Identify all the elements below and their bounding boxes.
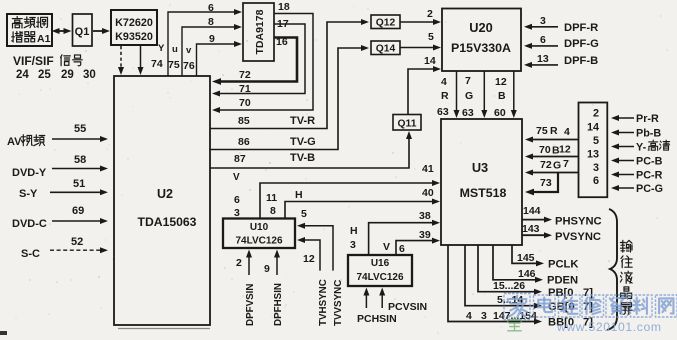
svg-text:30: 30 (83, 69, 96, 81)
wire U10 pin11 H to U3 pin41 (260, 163, 440, 219)
label pins 74 75 76 (151, 58, 195, 72)
svg-text:PB[0: PB[0 (548, 287, 574, 299)
svg-text:7]: 7] (583, 301, 593, 313)
output U3 pin143 PVSYNC (522, 223, 601, 243)
svg-text:75: 75 (168, 59, 180, 71)
svg-text:U16: U16 (371, 258, 390, 269)
ic TDA9178 (243, 3, 274, 61)
input Pb-B to connector pin14 (611, 128, 661, 140)
svg-text:74: 74 (151, 58, 163, 70)
svg-text:TVHSYNC: TVHSYNC (318, 279, 329, 326)
svg-text:145: 145 (517, 252, 535, 264)
input Y-HD (Y-高清) to connector pin5 (611, 140, 670, 154)
svg-text:86: 86 (238, 136, 250, 148)
svg-text:H: H (350, 225, 358, 237)
svg-text:63: 63 (462, 107, 474, 119)
wire TDA9178 pin18 to U2 pin70 (212, 14, 313, 114)
tuner box A1 (高频调谐器A1) (7, 14, 52, 46)
wire U: U2 pin75 to TDA9178 pin8 (182, 24, 242, 76)
svg-text:9: 9 (264, 263, 270, 275)
svg-text:146: 146 (518, 268, 536, 280)
wire Q14 to U20 pin5 (400, 31, 441, 51)
wire U20 pin7 G out to U3 pin63 (462, 71, 487, 119)
input DVD-Y pin 58 (12, 154, 108, 179)
svg-text:5: 5 (593, 135, 599, 147)
wire connector pin5 to U3 pin75 (75 R 4) (525, 125, 579, 143)
svg-text:6: 6 (234, 194, 240, 206)
brace to LCD panel (607, 209, 617, 330)
svg-text:2: 2 (427, 8, 433, 20)
svg-text:VIF/SIF: VIF/SIF (13, 54, 54, 68)
watermark green char (508, 317, 521, 331)
svg-text:73: 73 (540, 177, 552, 189)
input Pr-R to connector pin2 (611, 113, 659, 125)
svg-text:85: 85 (238, 115, 250, 127)
svg-text:4: 4 (441, 76, 447, 88)
wire TVHSYNC to U10 pin12 (297, 237, 320, 271)
svg-text:2: 2 (593, 108, 599, 120)
svg-text:Q11: Q11 (398, 119, 417, 130)
svg-text:4: 4 (466, 310, 472, 322)
svg-text:3: 3 (234, 207, 240, 219)
svg-text:63: 63 (437, 106, 449, 118)
svg-text:G: G (553, 160, 561, 172)
label VIF/SIF signal (VIF/SIF信号) (13, 54, 83, 68)
wire TDA9178 pin17 to U2 pin71 (212, 24, 305, 97)
svg-text:v: v (186, 45, 192, 56)
transistor Q11 (393, 115, 421, 131)
svg-text:74LVC126: 74LVC126 (356, 272, 404, 283)
wire U20 pin4 R out to U3 pin63 (437, 71, 460, 118)
svg-text:PC-R: PC-R (636, 170, 663, 182)
svg-text:TV-B: TV-B (290, 152, 315, 164)
svg-text:H: H (295, 189, 303, 201)
watermark 家电维修资料网 (504, 294, 677, 320)
input DPFHSIN to U10 pin9 (264, 250, 284, 327)
label U2 pins 6 3 (234, 194, 240, 219)
svg-text:3: 3 (540, 15, 546, 27)
svg-text:51: 51 (73, 178, 85, 190)
input PC-R to connector pin3 (611, 170, 663, 182)
svg-text:14: 14 (424, 55, 436, 67)
transistor Q1 (73, 14, 93, 46)
input PCHSIN to U16 (357, 288, 397, 326)
input DPF-R to U20 pin3 (524, 15, 598, 34)
svg-text:40: 40 (422, 187, 434, 199)
input S-C pin 52 (dashed) (21, 236, 108, 260)
svg-text:72: 72 (540, 159, 552, 171)
svg-text:87: 87 (234, 153, 246, 165)
svg-text:PVSYNC: PVSYNC (555, 231, 601, 243)
svg-text:6: 6 (593, 175, 599, 187)
svg-text:DVD-Y: DVD-Y (12, 167, 47, 179)
svg-text:15...26: 15...26 (493, 280, 525, 292)
svg-text:S-Y: S-Y (19, 188, 38, 200)
svg-text:Y-: Y- (636, 142, 647, 154)
svg-text:V: V (233, 172, 240, 183)
svg-text:13: 13 (587, 148, 599, 160)
svg-text:75: 75 (536, 125, 548, 137)
svg-text:PC-G: PC-G (636, 183, 663, 195)
svg-text:9: 9 (209, 33, 215, 45)
svg-text:11: 11 (266, 192, 277, 204)
input DPF-B to U20 pin13 (524, 53, 598, 68)
input PC-B to connector pin13 (611, 156, 663, 168)
svg-text:PDEN: PDEN (547, 275, 578, 287)
label TVVSYNC (333, 280, 344, 326)
svg-text:12: 12 (559, 144, 571, 156)
svg-text:8: 8 (270, 205, 276, 217)
svg-text:K93520: K93520 (115, 31, 153, 43)
svg-text:8: 8 (208, 16, 214, 28)
svg-text:39: 39 (419, 229, 431, 241)
svg-text:12: 12 (495, 76, 507, 88)
svg-text:U2: U2 (157, 187, 173, 201)
svg-text:PC-B: PC-B (636, 156, 663, 168)
svg-text:Q12: Q12 (376, 18, 396, 29)
input PCVSIN to U16 (379, 288, 427, 314)
label Y U V (158, 43, 192, 56)
input DPF-G to U20 pin6 (524, 34, 599, 50)
wire V: U2 pin76 to TDA9178 pin9 (197, 41, 243, 76)
wire Q11 to U20 pin14 (408, 55, 441, 115)
wire Q1 to IF box (93, 28, 110, 34)
IF filter box K72620/K93520 (111, 10, 157, 45)
svg-text:58: 58 (74, 154, 86, 166)
label to LCD panel (输往液晶屏) (620, 240, 632, 314)
output U3 bus GB[0..7] pins 5...14 (465, 245, 593, 313)
svg-text:14: 14 (587, 122, 599, 134)
input DVD-C pin 69 (12, 205, 108, 230)
wire K box to U2 pin (dashed) (118, 46, 124, 75)
svg-text:TDA9178: TDA9178 (254, 9, 266, 54)
wire K box to U2 (138, 46, 144, 75)
ic U16 74LVC126 (348, 255, 412, 286)
svg-text:DPF-G: DPF-G (564, 38, 599, 50)
svg-text:25: 25 (38, 69, 51, 81)
svg-text:P15V330A: P15V330A (451, 41, 511, 55)
svg-text:41: 41 (422, 163, 434, 175)
svg-text:2: 2 (236, 257, 242, 269)
svg-text:PCHSIN: PCHSIN (357, 313, 397, 325)
svg-text:www.520101.com: www.520101.com (556, 320, 662, 334)
connector CN input (video input port) (579, 103, 608, 198)
svg-text:74LVC126: 74LVC126 (235, 236, 283, 247)
svg-text:3: 3 (481, 310, 487, 322)
ic U3 MST518 (441, 119, 522, 245)
svg-text:R: R (441, 90, 449, 102)
svg-text:U10: U10 (250, 222, 269, 233)
svg-text:Q14: Q14 (376, 44, 396, 55)
svg-text:A1: A1 (37, 33, 51, 45)
svg-text:Q1: Q1 (75, 26, 90, 38)
wire U10 pin8 to U3 pin40 (270, 187, 440, 220)
transistor Q14 (371, 41, 400, 55)
wire U3 pin73 branch (525, 173, 558, 196)
svg-text:PCVSIN: PCVSIN (388, 301, 427, 313)
svg-text:60: 60 (494, 107, 506, 119)
svg-text:18: 18 (278, 1, 290, 13)
svg-text:6: 6 (399, 243, 405, 255)
svg-text:U3: U3 (472, 160, 488, 175)
svg-text:S-C: S-C (21, 248, 40, 260)
svg-text:DVD-C: DVD-C (12, 218, 47, 230)
output U3 bus BB[0..7] pins 4 3 147...154 (448, 245, 593, 329)
svg-text:DPFHSIN: DPFHSIN (273, 283, 284, 326)
svg-text:6: 6 (208, 2, 214, 14)
svg-text:MST518: MST518 (460, 186, 507, 200)
label pins 72 71 70 (239, 69, 251, 109)
svg-text:u: u (172, 44, 178, 55)
wire TDA9178 pin16 to U2 pin72 (thick) (212, 38, 297, 85)
svg-text:24: 24 (16, 69, 29, 81)
output U3 pin146 PDEN (493, 245, 578, 287)
svg-text:DPFVSIN: DPFVSIN (245, 284, 256, 326)
svg-text:12: 12 (303, 253, 315, 265)
svg-text:70: 70 (539, 144, 551, 156)
ic U20 P15V330A (442, 9, 521, 72)
label pins 24 25 29 30 (16, 69, 96, 81)
wire TVVSYNC to U10 pin5 (297, 223, 333, 271)
svg-text:5: 5 (428, 31, 434, 43)
svg-text:3: 3 (593, 162, 599, 174)
svg-text:TVVSYNC: TVVSYNC (333, 280, 344, 326)
svg-text:K72620: K72620 (115, 17, 153, 29)
svg-text:DPF-R: DPF-R (564, 22, 598, 34)
svg-text:70: 70 (239, 97, 251, 109)
svg-text:3: 3 (350, 239, 356, 251)
svg-text:U20: U20 (469, 20, 492, 35)
label pins 6 8 9 (208, 2, 215, 45)
wire connector pin3 to U3 pin72 (72 G 7) (525, 158, 579, 176)
svg-text:69: 69 (72, 205, 84, 217)
svg-text:PHSYNC: PHSYNC (555, 216, 602, 228)
svg-text:7: 7 (465, 75, 471, 87)
svg-text:Pb-B: Pb-B (636, 128, 661, 140)
svg-text:5: 5 (301, 208, 307, 220)
label pins 18 17 16 (276, 1, 290, 48)
wire U16 H out to U3 pin38 (350, 210, 440, 255)
ic U2 TDA15063 (114, 76, 210, 325)
label TVHSYNC (318, 279, 329, 326)
wire connector pin13 to U3 pin70 (70 B 12) (525, 144, 579, 160)
svg-text:72: 72 (239, 69, 251, 81)
wire U16 V out to U3 pin39 (383, 229, 440, 255)
wire Y: U2 pin74 to TDA9178 pin6 (168, 9, 242, 76)
wire TV-G: U2 pin86 to Q14 (210, 45, 369, 150)
svg-text:38: 38 (419, 210, 431, 222)
svg-text:4: 4 (564, 126, 570, 138)
svg-text:7: 7 (563, 158, 569, 170)
svg-text:DPF-B: DPF-B (564, 55, 598, 67)
input PC-G to connector pin6 (611, 183, 663, 195)
wire U20 pin12 B out to U3 pin60 (494, 71, 517, 119)
wire Q12 to U20 pin2 (400, 8, 441, 25)
input DPFVSIN to U10 pin2 (236, 250, 256, 327)
svg-text:V: V (383, 241, 390, 253)
svg-text:13: 13 (537, 53, 549, 65)
wire TV-B: U2 pin87 to Q11 (210, 131, 412, 183)
output U3 bus PB[0..7] pins 15...26 (478, 245, 593, 299)
svg-text:B: B (498, 90, 506, 102)
svg-text:AV: AV (7, 136, 22, 148)
wire tuner to Q1 (bidirectional) (52, 28, 72, 34)
transistor Q12 (371, 15, 400, 29)
output U3 pin145 PCLK (512, 245, 578, 271)
svg-text:55: 55 (74, 123, 86, 135)
svg-text:TV-R: TV-R (290, 115, 315, 127)
input S-Y pin 51 (19, 178, 108, 200)
svg-text:29: 29 (61, 69, 74, 81)
wire TV-R: U2 pin85 to Q12 (210, 19, 369, 129)
svg-text:76: 76 (183, 60, 195, 72)
ic U10 74LVC126 (223, 219, 295, 249)
svg-text:143: 143 (522, 223, 540, 235)
svg-text:PCLK: PCLK (548, 259, 578, 271)
svg-text:Y: Y (158, 43, 165, 54)
scan artifact under U2 (0, 329, 210, 336)
svg-text:TDA15063: TDA15063 (138, 215, 197, 229)
svg-text:Pr-R: Pr-R (636, 113, 659, 125)
watermark url www.520101.com (556, 320, 662, 334)
svg-text:6: 6 (540, 34, 546, 46)
svg-text:R: R (550, 125, 558, 137)
svg-text:144: 144 (523, 205, 541, 217)
output U3 pin144 PHSYNC (522, 205, 602, 228)
svg-text:G: G (465, 90, 473, 102)
svg-text:52: 52 (71, 236, 83, 248)
svg-text:TV-G: TV-G (290, 136, 316, 148)
input AV video (AV视频) pin 55 (7, 123, 108, 148)
svg-text:71: 71 (239, 83, 251, 95)
